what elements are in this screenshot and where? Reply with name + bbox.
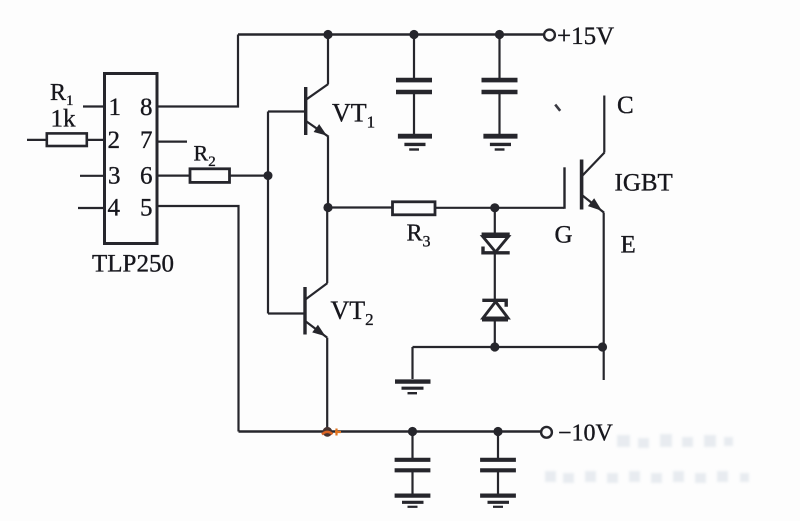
wire: down to middle ground bbox=[411, 347, 413, 379]
resistor R1 1k bbox=[47, 133, 87, 146]
transistor VT1 base bar bbox=[304, 87, 307, 135]
zener diode VD1 triangle bbox=[483, 237, 509, 252]
node: gate line / VD1 bbox=[490, 203, 499, 212]
wire: pin 5 down to -10V rail bbox=[158, 206, 239, 432]
node: VD2 / ground line bbox=[490, 342, 499, 351]
wire: VT1 collector to rail bbox=[327, 35, 329, 85]
svg-text:TLP250: TLP250 bbox=[92, 251, 174, 278]
svg-text:3: 3 bbox=[108, 163, 121, 190]
wire: VT1 emitter down to gate node bbox=[327, 137, 329, 208]
wire: +15V top rail bbox=[238, 33, 544, 35]
svg-text:2: 2 bbox=[108, 127, 121, 154]
wire: R2 to base node bbox=[230, 175, 269, 177]
wire: input lead to R1 bbox=[27, 139, 47, 141]
capacitor C4 bottom lead bbox=[497, 472, 499, 494]
capacitor C3 top lead bbox=[411, 432, 413, 459]
zener diode VD2 cathode bar bbox=[482, 300, 506, 307]
zener diode VD2 triangle bbox=[483, 302, 508, 318]
node: rail / VT1 collector bbox=[323, 30, 332, 39]
zener diode VD1 anode bar bbox=[482, 233, 510, 237]
capacitor C1 top lead bbox=[413, 35, 415, 79]
pin 7 stub bbox=[158, 141, 187, 143]
transistor VT2 emitter arrow bbox=[312, 325, 328, 340]
pin 1 stub bbox=[83, 105, 104, 107]
ground (under C4) bbox=[480, 496, 516, 507]
svg-text:6: 6 bbox=[140, 163, 153, 190]
wire: VD1 to VD2 bbox=[494, 254, 496, 301]
IGBT U2 gate bar bbox=[563, 167, 565, 209]
ground (under C1) bbox=[398, 136, 432, 149]
wire: VD2 to ground line bbox=[494, 321, 496, 348]
node: emitter line / ground line bbox=[598, 342, 607, 351]
node: VT2 emitter / bottom rail (red marked) bbox=[322, 427, 341, 437]
IGBT collector diagonal bbox=[583, 153, 605, 176]
transistor VT2 collector diagonal bbox=[306, 283, 328, 299]
capacitor C2 top lead bbox=[498, 35, 500, 79]
resistor R3 bbox=[393, 202, 436, 215]
zener diode VD2 anode bar bbox=[482, 317, 508, 321]
svg-text:IGBT: IGBT bbox=[615, 170, 673, 197]
svg-text:5: 5 bbox=[140, 195, 153, 222]
wire: base bus VT1-VT2 bbox=[267, 112, 269, 314]
wire: R1 to pin 2 bbox=[87, 139, 104, 141]
pin 3 stub bbox=[80, 175, 104, 177]
IGBT body bar bbox=[580, 160, 584, 210]
ground (under C2) bbox=[483, 136, 517, 149]
wire: gate node down to zener VD1 bbox=[494, 208, 496, 233]
ground (middle) bbox=[395, 382, 431, 394]
svg-text:1k: 1k bbox=[51, 106, 77, 133]
pin 4 stub bbox=[78, 207, 104, 209]
svg-text:−10V: −10V bbox=[558, 421, 614, 447]
svg-text:8: 8 bbox=[140, 94, 153, 121]
wire: pin 8 to top rail bbox=[158, 35, 238, 107]
wire: -10V bottom rail bbox=[239, 430, 542, 432]
transistor VT2 collector wire bbox=[326, 208, 328, 284]
svg-text:7: 7 bbox=[140, 127, 153, 154]
node: rail / C2 bbox=[495, 30, 504, 39]
faint watermark bbox=[545, 434, 749, 483]
node: emitters / gate line bbox=[323, 203, 332, 212]
capacitor C1 bottom lead bbox=[413, 94, 415, 134]
zener diode VD1 cathode bar bbox=[483, 247, 510, 253]
node: bottom rail / C3 bbox=[408, 427, 417, 436]
wire: IGBT emitter E down bbox=[603, 213, 605, 380]
IGBT emitter diagonal bbox=[583, 196, 605, 213]
svg-text:4: 4 bbox=[108, 195, 121, 222]
wire: VT2 emitter to bottom rail bbox=[326, 338, 328, 432]
node: rail / C1 bbox=[409, 30, 418, 39]
svg-text:C: C bbox=[617, 92, 634, 119]
transistor VT1 emitter diagonal bbox=[307, 121, 329, 136]
transistor Q VT1 base lead bbox=[268, 110, 304, 112]
wire: IGBT collector C bbox=[603, 96, 605, 153]
svg-text:1: 1 bbox=[109, 94, 122, 121]
IC U1 TLP250 body bbox=[105, 74, 158, 244]
node: bottom rail / C4 bbox=[493, 427, 502, 436]
transistor VT2 base lead bbox=[268, 312, 304, 314]
svg-text:+15V: +15V bbox=[557, 23, 614, 50]
capacitor C4 plates bbox=[480, 458, 516, 462]
IGBT emitter arrow bbox=[588, 198, 605, 215]
wire: gate line to R3 bbox=[328, 206, 393, 208]
capacitor C2 plates bbox=[482, 78, 518, 83]
stray mark near gate bbox=[555, 105, 560, 111]
resistor R2 bbox=[190, 169, 230, 183]
transistor VT1 collector diagonal bbox=[307, 84, 329, 99]
capacitor C3 plates bbox=[395, 458, 431, 462]
transistor VT2 base bar bbox=[303, 287, 306, 335]
ground (under C3) bbox=[395, 496, 431, 507]
terminal +15V bbox=[544, 30, 555, 41]
capacitor C2 bottom lead bbox=[498, 94, 500, 134]
transistor VT2 emitter diagonal bbox=[306, 322, 327, 338]
svg-text:G: G bbox=[555, 222, 573, 249]
svg-text:E: E bbox=[621, 232, 636, 259]
wire: emitter/ground horizontal line bbox=[413, 346, 603, 348]
node: R2 / base bus bbox=[264, 171, 273, 180]
terminal -10V bbox=[541, 427, 552, 438]
capacitor C3 bottom lead bbox=[411, 472, 413, 494]
wire: R3 to IGBT gate bbox=[435, 207, 564, 209]
wire: pin 6 to R2 bbox=[158, 175, 190, 177]
transistor VT1 emitter arrow bbox=[314, 124, 330, 139]
capacitor C4 top lead bbox=[497, 432, 499, 459]
capacitor C1 plates bbox=[396, 78, 432, 83]
